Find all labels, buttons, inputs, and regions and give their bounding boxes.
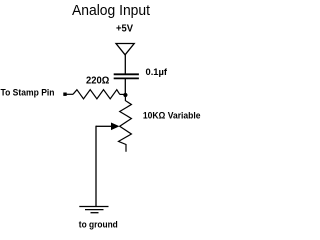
+5V power symbol <box>116 44 134 55</box>
svg-text:To Stamp Pin: To Stamp Pin <box>1 87 55 98</box>
wire capacitor C1 to node A <box>124 78 126 95</box>
wire wiper to ground vertical <box>95 126 97 207</box>
svg-text:220Ω: 220Ω <box>86 75 109 86</box>
svg-text:0.1µf: 0.1µf <box>146 67 168 78</box>
svg-text:10KΩ Variable: 10KΩ Variable <box>143 110 201 121</box>
terminal pin To Stamp Pin <box>63 93 66 96</box>
wire resistor R1 to node A <box>120 93 126 95</box>
title label Analog Input <box>72 3 150 19</box>
to ground label <box>79 219 118 230</box>
svg-text:+5V: +5V <box>116 24 133 35</box>
To Stamp Pin label <box>1 87 55 98</box>
potentiometer R2 wiper arrow <box>111 123 120 131</box>
potentiometer R2 value label 10KΩ Variable <box>143 110 201 121</box>
potentiometer R2 <box>119 97 132 152</box>
node A junction dot <box>123 93 127 97</box>
capacitor C1 <box>114 74 139 78</box>
svg-text:Analog Input: Analog Input <box>72 3 150 19</box>
ground <box>79 207 108 213</box>
wire wiper horizontal <box>96 125 112 127</box>
wire +5V symbol to capacitor C1 <box>124 55 126 75</box>
svg-text:to ground: to ground <box>79 219 118 230</box>
resistor R1 value label 220Ω <box>86 75 109 86</box>
+5V label <box>116 24 133 35</box>
resistor R1 <box>73 90 120 99</box>
wire terminal to resistor R1 <box>67 93 74 95</box>
capacitor C1 value label 0.1µf <box>146 67 168 78</box>
